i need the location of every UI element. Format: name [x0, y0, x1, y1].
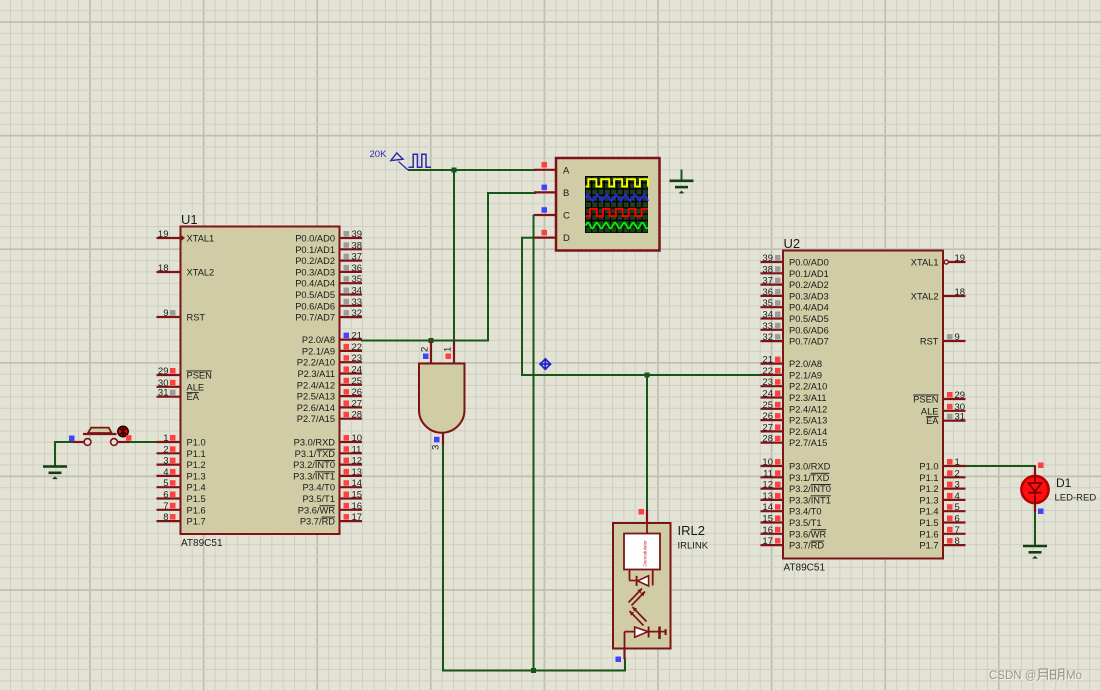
svg-text:P2.5/A13: P2.5/A13 — [297, 392, 335, 402]
svg-text:P2.7/A15: P2.7/A15 — [789, 438, 827, 448]
svg-text:ALE: ALE — [187, 382, 205, 392]
svg-text:P3.6/WR: P3.6/WR — [789, 529, 826, 539]
svg-text:P3.0/RXD: P3.0/RXD — [294, 438, 336, 448]
svg-text:P3.4/T0: P3.4/T0 — [789, 507, 822, 517]
svg-text:12: 12 — [762, 480, 773, 491]
svg-text:38: 38 — [762, 264, 773, 275]
svg-text:Demodulator: Demodulator — [643, 540, 648, 567]
svg-text:P3.2/INT0: P3.2/INT0 — [293, 460, 335, 470]
svg-text:P1.0: P1.0 — [187, 438, 206, 448]
svg-text:RST: RST — [920, 337, 939, 347]
svg-text:P1.1: P1.1 — [919, 473, 938, 483]
svg-text:AT89C51: AT89C51 — [181, 538, 223, 549]
svg-text:18: 18 — [955, 287, 966, 298]
svg-text:P0.5/AD5: P0.5/AD5 — [295, 290, 335, 300]
svg-text:P0.4/AD4: P0.4/AD4 — [295, 279, 335, 289]
svg-text:2: 2 — [420, 347, 431, 352]
svg-text:16: 16 — [352, 501, 363, 512]
svg-text:P3.3/INT1: P3.3/INT1 — [789, 495, 831, 505]
svg-text:4: 4 — [955, 491, 960, 502]
svg-text:P0.3/AD3: P0.3/AD3 — [789, 291, 829, 301]
svg-text:P0.0/AD0: P0.0/AD0 — [789, 258, 829, 268]
svg-text:37: 37 — [352, 252, 363, 263]
svg-text:C: C — [563, 211, 570, 222]
svg-text:P1.0: P1.0 — [919, 462, 938, 472]
svg-text:P3.4/T0: P3.4/T0 — [302, 483, 335, 493]
svg-text:25: 25 — [352, 376, 363, 387]
svg-text:29: 29 — [955, 390, 966, 401]
svg-text:19: 19 — [955, 253, 966, 264]
svg-text:2: 2 — [163, 444, 168, 455]
svg-text:13: 13 — [352, 467, 363, 478]
svg-text:IRLINK: IRLINK — [678, 541, 709, 552]
svg-text:EA: EA — [187, 392, 200, 402]
svg-text:A: A — [563, 165, 570, 176]
svg-text:12: 12 — [352, 456, 363, 467]
svg-text:10: 10 — [762, 457, 773, 468]
svg-text:P0.7/AD7: P0.7/AD7 — [295, 313, 335, 323]
svg-text:P2.4/A12: P2.4/A12 — [297, 380, 335, 390]
svg-text:28: 28 — [762, 434, 773, 445]
svg-text:15: 15 — [352, 490, 363, 501]
svg-text:35: 35 — [352, 274, 363, 285]
svg-text:6: 6 — [163, 490, 168, 501]
svg-text:P3.3/INT1: P3.3/INT1 — [293, 471, 335, 481]
svg-text:37: 37 — [762, 276, 773, 287]
svg-text:CSDN @: CSDN @ — [989, 670, 1036, 682]
svg-text:XTAL1: XTAL1 — [911, 258, 939, 268]
svg-text:P3.7/RD: P3.7/RD — [789, 541, 824, 551]
svg-text:P0.2/AD2: P0.2/AD2 — [295, 256, 335, 266]
svg-text:ALE: ALE — [921, 406, 939, 416]
svg-text:5: 5 — [955, 502, 960, 513]
svg-text:34: 34 — [762, 310, 773, 321]
svg-text:RST: RST — [187, 313, 206, 323]
svg-text:9: 9 — [955, 332, 960, 343]
svg-text:XTAL2: XTAL2 — [187, 268, 215, 278]
svg-text:P1.1: P1.1 — [187, 449, 206, 459]
svg-text:P3.1/TXD: P3.1/TXD — [295, 449, 336, 459]
svg-text:39: 39 — [352, 229, 363, 240]
svg-text:28: 28 — [352, 410, 363, 421]
svg-text:P1.3: P1.3 — [919, 495, 938, 505]
svg-text:AT89C51: AT89C51 — [784, 563, 826, 574]
svg-text:1: 1 — [163, 433, 168, 444]
svg-text:2: 2 — [955, 468, 960, 479]
svg-text:P1.2: P1.2 — [919, 484, 938, 494]
svg-text:17: 17 — [352, 512, 363, 523]
svg-text:25: 25 — [762, 400, 773, 411]
svg-text:7: 7 — [955, 525, 960, 536]
svg-text:4: 4 — [163, 467, 168, 478]
svg-text:18: 18 — [158, 263, 169, 274]
svg-text:P0.1/AD1: P0.1/AD1 — [295, 245, 335, 255]
svg-text:U2: U2 — [784, 236, 801, 251]
svg-text:31: 31 — [158, 388, 169, 399]
svg-text:27: 27 — [762, 422, 773, 433]
svg-text:3: 3 — [431, 445, 442, 450]
svg-text:19: 19 — [158, 229, 169, 240]
svg-text:22: 22 — [762, 366, 773, 377]
svg-text:P0.2/AD2: P0.2/AD2 — [789, 280, 829, 290]
svg-text:P3.2/INT0: P3.2/INT0 — [789, 484, 831, 494]
svg-text:11: 11 — [352, 444, 362, 455]
svg-text:27: 27 — [352, 398, 363, 409]
svg-text:P1.5: P1.5 — [919, 518, 938, 528]
svg-text:P3.5/T1: P3.5/T1 — [302, 494, 335, 504]
svg-text:5: 5 — [163, 478, 168, 489]
svg-text:34: 34 — [352, 286, 363, 297]
svg-text:29: 29 — [158, 366, 169, 377]
svg-text:P0.0/AD0: P0.0/AD0 — [295, 234, 335, 244]
svg-text:23: 23 — [352, 353, 363, 364]
svg-text:22: 22 — [352, 342, 363, 353]
svg-text:P3.5/T1: P3.5/T1 — [789, 518, 822, 528]
svg-text:26: 26 — [762, 411, 773, 422]
svg-text:P2.4/A12: P2.4/A12 — [789, 404, 827, 414]
svg-text:P2.7/A15: P2.7/A15 — [297, 414, 335, 424]
svg-text:16: 16 — [762, 525, 773, 536]
svg-text:P2.1/A9: P2.1/A9 — [302, 346, 335, 356]
svg-text:23: 23 — [762, 377, 773, 388]
svg-text:21: 21 — [762, 355, 773, 366]
svg-text:14: 14 — [352, 478, 363, 489]
svg-text:P2.0/A8: P2.0/A8 — [302, 335, 335, 345]
svg-text:35: 35 — [762, 298, 773, 309]
svg-text:20K: 20K — [370, 149, 388, 160]
svg-text:P2.6/A14: P2.6/A14 — [297, 403, 335, 413]
svg-text:P0.5/AD5: P0.5/AD5 — [789, 314, 829, 324]
svg-text:32: 32 — [352, 308, 363, 319]
svg-text:P2.3/A11: P2.3/A11 — [297, 369, 335, 379]
svg-text:D1: D1 — [1056, 476, 1072, 490]
svg-text:U1: U1 — [181, 212, 198, 227]
svg-text:Mo: Mo — [1066, 670, 1082, 682]
svg-text:B: B — [563, 188, 569, 199]
svg-text:15: 15 — [762, 514, 773, 525]
svg-text:3: 3 — [163, 456, 168, 467]
svg-text:P0.3/AD3: P0.3/AD3 — [295, 267, 335, 277]
svg-text:1: 1 — [443, 347, 454, 352]
svg-text:IRL2: IRL2 — [678, 523, 705, 538]
svg-text:1: 1 — [955, 457, 960, 468]
svg-text:PSEN: PSEN — [187, 371, 212, 381]
svg-text:P1.4: P1.4 — [187, 483, 206, 493]
svg-text:P0.6/AD6: P0.6/AD6 — [789, 325, 829, 335]
svg-text:17: 17 — [762, 536, 773, 547]
svg-text:39: 39 — [762, 253, 773, 264]
svg-text:P2.6/A14: P2.6/A14 — [789, 427, 827, 437]
svg-text:P2.1/A9: P2.1/A9 — [789, 370, 822, 380]
svg-text:P1.5: P1.5 — [187, 494, 206, 504]
svg-text:P3.1/TXD: P3.1/TXD — [789, 473, 830, 483]
svg-text:33: 33 — [762, 321, 773, 332]
svg-text:XTAL2: XTAL2 — [911, 292, 939, 302]
svg-text:P1.6: P1.6 — [187, 505, 206, 515]
svg-text:EA: EA — [926, 416, 939, 426]
svg-text:36: 36 — [762, 287, 773, 298]
svg-text:26: 26 — [352, 387, 363, 398]
svg-text:6: 6 — [955, 514, 960, 525]
svg-text:33: 33 — [352, 297, 363, 308]
svg-text:PSEN: PSEN — [913, 395, 938, 405]
svg-text:LED-RED: LED-RED — [1055, 493, 1097, 504]
svg-text:XTAL1: XTAL1 — [187, 234, 215, 244]
svg-text:P2.2/A10: P2.2/A10 — [789, 382, 827, 392]
svg-text:13: 13 — [762, 491, 773, 502]
svg-text:38: 38 — [352, 240, 363, 251]
svg-text:3: 3 — [955, 480, 960, 491]
svg-text:P0.6/AD6: P0.6/AD6 — [295, 301, 335, 311]
svg-text:8: 8 — [163, 512, 168, 523]
svg-text:P1.2: P1.2 — [187, 460, 206, 470]
svg-text:P1.3: P1.3 — [187, 471, 206, 481]
svg-text:P2.2/A10: P2.2/A10 — [297, 358, 335, 368]
svg-text:P1.4: P1.4 — [919, 507, 938, 517]
svg-text:32: 32 — [762, 332, 773, 343]
svg-text:36: 36 — [352, 263, 363, 274]
svg-text:7: 7 — [163, 501, 168, 512]
svg-text:10: 10 — [352, 433, 363, 444]
svg-text:9: 9 — [163, 308, 168, 319]
svg-text:24: 24 — [762, 389, 773, 400]
svg-text:11: 11 — [763, 468, 773, 479]
svg-text:P2.3/A11: P2.3/A11 — [789, 393, 827, 403]
svg-text:P3.6/WR: P3.6/WR — [298, 505, 335, 515]
svg-text:21: 21 — [352, 331, 363, 342]
svg-text:31: 31 — [955, 412, 966, 423]
svg-text:P2.0/A8: P2.0/A8 — [789, 359, 822, 369]
svg-text:P3.0/RXD: P3.0/RXD — [789, 462, 831, 472]
svg-text:P1.6: P1.6 — [919, 529, 938, 539]
svg-text:8: 8 — [955, 536, 960, 547]
svg-text:P1.7: P1.7 — [919, 541, 938, 551]
svg-text:14: 14 — [762, 502, 773, 513]
svg-text:D: D — [563, 233, 570, 244]
svg-text:P1.7: P1.7 — [187, 517, 206, 527]
svg-text:P0.4/AD4: P0.4/AD4 — [789, 303, 829, 313]
svg-text:24: 24 — [352, 365, 363, 376]
svg-text:P3.7/RD: P3.7/RD — [300, 517, 335, 527]
svg-text:P0.7/AD7: P0.7/AD7 — [789, 337, 829, 347]
svg-text:P0.1/AD1: P0.1/AD1 — [789, 269, 829, 279]
svg-text:P2.5/A13: P2.5/A13 — [789, 416, 827, 426]
